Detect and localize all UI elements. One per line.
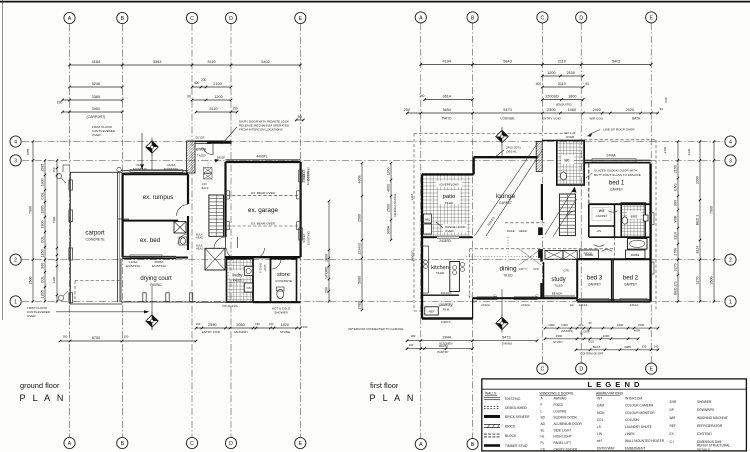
svg-text:3950: 3950 xyxy=(92,107,100,111)
svg-text:BRICK: BRICK xyxy=(505,424,516,428)
svg-text:ENTRY VOID: ENTRY VOID xyxy=(202,330,221,334)
svg-text:WIR: WIR xyxy=(673,215,677,222)
svg-text:2418: 2418 xyxy=(410,193,414,200)
stairwell west wall on C xyxy=(539,184,543,258)
svg-text:SHR: SHR xyxy=(670,400,677,404)
svg-text:COLUMN: COLUMN xyxy=(625,418,640,422)
svg-text:3500: 3500 xyxy=(709,277,713,285)
svg-text:LINE OF ROOF OVER: LINE OF ROOF OVER xyxy=(603,128,635,132)
svg-text:1300: 1300 xyxy=(561,323,568,327)
first floor chain 3614 xyxy=(419,94,474,101)
left overall vertical chain 7900/3500 xyxy=(28,140,34,302)
wc tiled room top xyxy=(557,141,584,186)
svg-text:1200: 1200 xyxy=(214,95,222,99)
svg-text:1200: 1200 xyxy=(547,71,555,75)
grid line row 2 xyxy=(22,259,723,261)
svg-text:150: 150 xyxy=(232,107,238,111)
svg-text:960: 960 xyxy=(673,200,677,206)
entry top wall xyxy=(195,141,232,143)
svg-text:2100: 2100 xyxy=(673,165,677,173)
kitchen 2400SD label xyxy=(439,239,451,243)
labels below bottom wall xyxy=(222,304,291,315)
dashed cantilever rect bottom xyxy=(75,281,121,303)
svg-text:2100: 2100 xyxy=(213,82,221,86)
grid bubble B top (ground floor) xyxy=(117,12,128,23)
svg-text:1.08: 1.08 xyxy=(202,182,208,186)
svg-text:EXISTING: EXISTING xyxy=(133,167,148,171)
svg-text:COL: COL xyxy=(597,418,604,422)
svg-text:90: 90 xyxy=(659,107,663,111)
svg-text:BLOCK: BLOCK xyxy=(505,434,517,438)
lounge top wall xyxy=(474,157,538,174)
svg-text:SIDE LIGHT: SIDE LIGHT xyxy=(554,428,572,432)
svg-text:2402F: 2402F xyxy=(217,156,226,160)
sdt note xyxy=(495,146,522,158)
kitchen roofline dashes top xyxy=(469,249,471,298)
grid line A (ground floor) xyxy=(69,24,71,437)
svg-text:HL: HL xyxy=(541,435,545,439)
svg-text:LS: LS xyxy=(597,425,601,429)
svg-text:5402: 5402 xyxy=(261,60,269,64)
svg-text:4: 4 xyxy=(14,140,17,146)
svg-text:DP: DP xyxy=(670,408,674,412)
svg-text:90: 90 xyxy=(585,82,589,86)
svg-text:ens: ens xyxy=(631,214,637,219)
svg-text:3000: 3000 xyxy=(695,176,699,184)
ex bed label xyxy=(140,237,161,244)
svg-text:2590: 2590 xyxy=(208,323,216,327)
svg-text:INTERCOM: INTERCOM xyxy=(625,397,642,401)
garage right wall window marks xyxy=(299,170,303,240)
svg-text:190: 190 xyxy=(124,335,129,339)
svg-text:8750: 8750 xyxy=(92,336,100,340)
legend walls header xyxy=(485,391,497,395)
svg-text:3500: 3500 xyxy=(28,277,32,285)
svg-text:E: E xyxy=(299,16,303,22)
stairs ground floor xyxy=(209,195,224,236)
svg-text:2444A: 2444A xyxy=(606,154,616,158)
svg-text:OVER: OVER xyxy=(92,133,101,137)
right chain bed1 xyxy=(695,140,701,302)
svg-text:1800: 1800 xyxy=(40,221,44,229)
patio overflow note xyxy=(436,181,462,188)
section diamond top (first) xyxy=(496,127,508,156)
carport right existing wall xyxy=(118,172,129,302)
svg-text:PANEL LIFT: PANEL LIFT xyxy=(554,441,572,445)
svg-text:drying court: drying court xyxy=(140,276,172,282)
svg-text:REF: REF xyxy=(670,424,676,428)
svg-text:patio: patio xyxy=(443,194,456,200)
ground floor carport dimension chain 3360 xyxy=(57,95,124,104)
hall door arcs xyxy=(594,211,618,252)
carport corner column markers xyxy=(56,167,121,300)
robe boxes xyxy=(580,250,646,258)
svg-text:400: 400 xyxy=(536,82,542,86)
svg-text:90: 90 xyxy=(298,115,302,119)
ground floor main top dimension chain xyxy=(68,60,301,66)
dining label xyxy=(499,266,517,278)
svg-text:180: 180 xyxy=(411,334,416,338)
svg-text:900A: 900A xyxy=(386,225,390,234)
svg-text:BATH: BATH xyxy=(632,117,641,121)
svg-text:2700: 2700 xyxy=(673,248,677,256)
svg-text:2100: 2100 xyxy=(567,71,575,75)
svg-text:1500: 1500 xyxy=(638,323,645,327)
svg-text:wir: wir xyxy=(599,208,605,213)
flue box at bed corner xyxy=(174,222,186,234)
D207A label xyxy=(441,320,450,324)
svg-text:wH: wH xyxy=(597,439,602,443)
svg-text:1: 1 xyxy=(729,300,732,306)
first floor chain 3110 xyxy=(536,82,589,88)
svg-text:4600: 4600 xyxy=(386,184,390,192)
entry label xyxy=(196,147,207,158)
svg-text:2500: 2500 xyxy=(386,204,390,212)
grid bubble C top (ground floor) xyxy=(186,12,197,23)
svg-text:7900: 7900 xyxy=(709,206,713,214)
svg-text:2080: 2080 xyxy=(236,323,244,327)
svg-text:WM: WM xyxy=(670,416,676,420)
svg-text:1: 1 xyxy=(14,300,17,306)
svg-text:L E G E N D: L E G E N D xyxy=(587,380,640,389)
carport label xyxy=(85,230,105,242)
ground floor: carport outline xyxy=(63,165,122,304)
svg-text:WALL MOUNTED HEATER: WALL MOUNTED HEATER xyxy=(625,439,665,443)
svg-text:SHOWER: SHOWER xyxy=(697,400,712,404)
svg-text:1134x3: 1134x3 xyxy=(357,243,361,255)
lounge dashed head lines xyxy=(505,223,545,233)
svg-text:1460: 1460 xyxy=(568,108,576,112)
bed3 walls xyxy=(577,259,613,301)
grid bubble row 3 left xyxy=(10,155,21,166)
ridge note xyxy=(584,252,593,256)
svg-text:1585: 1585 xyxy=(26,148,30,155)
svg-text:2500: 2500 xyxy=(547,108,555,112)
svg-text:3270: 3270 xyxy=(673,263,677,271)
svg-text:CONCRETE: CONCRETE xyxy=(85,238,105,242)
svg-text:1200: 1200 xyxy=(386,168,390,176)
ground floor 90 tick labels near E xyxy=(295,115,305,121)
carport posts on left wall xyxy=(69,172,73,304)
ground floor carport dimension chain 3950 xyxy=(61,107,123,119)
study area xyxy=(542,249,576,298)
first floor cantilever note top xyxy=(92,125,144,170)
svg-text:190: 190 xyxy=(255,322,260,326)
svg-text:2920: 2920 xyxy=(625,108,633,112)
row4 left tail xyxy=(26,148,30,155)
grid bubble row 4 left xyxy=(10,136,21,147)
svg-text:2414CD: 2414CD xyxy=(441,291,452,295)
svg-text:BACK: BACK xyxy=(202,186,209,190)
kitchen walls xyxy=(422,236,473,318)
svg-text:COLOUR MONITOR: COLOUR MONITOR xyxy=(625,411,655,415)
grid line B (ground floor) xyxy=(121,24,123,437)
svg-text:CARPET: CARPET xyxy=(499,201,512,205)
bed2 label xyxy=(623,275,639,287)
svg-text:first floor: first floor xyxy=(370,381,399,390)
grid bubble E bottom (first floor) xyxy=(646,363,657,374)
C1 column labels on dining wall xyxy=(468,294,539,298)
grid line A (first floor) xyxy=(420,23,422,438)
svg-text:ex. rumpus: ex. rumpus xyxy=(143,194,174,201)
svg-text:90: 90 xyxy=(589,321,592,325)
svg-text:A: A xyxy=(68,441,72,447)
svg-text:BENCH: BENCH xyxy=(552,292,563,296)
svg-text:240: 240 xyxy=(654,345,659,349)
dining bulkhead dotted lines xyxy=(466,237,541,257)
top border line xyxy=(0,1,750,3)
svg-text:OVER: OVER xyxy=(445,229,454,233)
svg-text:A630: A630 xyxy=(439,344,448,348)
first floor chain 1200SD 1800 ensuite xyxy=(541,95,584,107)
rumpus label xyxy=(143,194,174,201)
svg-text:OVER: OVER xyxy=(566,135,575,139)
svg-text:B: B xyxy=(471,16,475,22)
svg-text:COLOUR CAMERA: COLOUR CAMERA xyxy=(625,404,654,408)
svg-text:CAVITY SLIDER: CAVITY SLIDER xyxy=(554,447,578,451)
svg-text:WM: WM xyxy=(247,286,253,290)
grid bubble row 2 right xyxy=(725,254,736,265)
svg-text:1780: 1780 xyxy=(357,302,361,310)
svg-text:4808: 4808 xyxy=(357,176,361,184)
svg-text:4400PL: 4400PL xyxy=(257,155,268,159)
svg-text:4099: 4099 xyxy=(634,328,641,332)
svg-text:1800: 1800 xyxy=(568,95,576,99)
first floor bottom chain kitchen/dining xyxy=(406,334,539,346)
svg-text:(STAIRS): (STAIRS) xyxy=(561,329,573,333)
svg-text:dbo: dbo xyxy=(578,323,583,327)
svg-text:C: C xyxy=(190,441,194,447)
svg-text:CS: CS xyxy=(541,447,545,451)
svg-text:B: B xyxy=(471,442,475,448)
svg-text:LIN: LIN xyxy=(597,432,603,436)
svg-text:entry: entry xyxy=(196,147,207,152)
hall door arcs xyxy=(227,237,265,259)
svg-text:A: A xyxy=(419,16,423,22)
svg-text:AWNING: AWNING xyxy=(554,397,568,401)
svg-text:3240: 3240 xyxy=(92,82,100,86)
svg-text:PANTRY: PANTRY xyxy=(437,350,449,354)
svg-text:LINEN: LINEN xyxy=(625,432,635,436)
svg-text:wc: wc xyxy=(564,158,569,163)
svg-text:LIN: LIN xyxy=(597,229,602,233)
svg-text:HEAD: HEAD xyxy=(519,229,527,233)
svg-text:EXISTING: EXISTING xyxy=(152,264,167,268)
svg-text:2500: 2500 xyxy=(556,334,563,338)
patio label xyxy=(438,190,460,205)
svg-text:3: 3 xyxy=(14,159,17,165)
legend abbreviations column xyxy=(596,391,665,450)
grid bubble row 4 right xyxy=(725,136,736,147)
svg-text:180: 180 xyxy=(63,335,68,339)
svg-text:240: 240 xyxy=(664,97,668,102)
beds bottom window bands xyxy=(570,298,650,307)
grid bubble B bottom (first floor) xyxy=(467,438,478,449)
bed1 left glazed wall dashed xyxy=(588,164,590,204)
grid line row 3 xyxy=(22,159,723,161)
svg-text:200: 200 xyxy=(201,78,207,82)
grid line C (first floor) xyxy=(541,23,543,363)
patio walls xyxy=(422,174,474,237)
svg-text:study: study xyxy=(551,277,565,283)
patio planter boxes xyxy=(424,214,432,234)
wir label xyxy=(592,208,611,221)
svg-text:E: E xyxy=(649,367,653,373)
bed1 top window band xyxy=(584,154,651,163)
svg-text:4194: 4194 xyxy=(442,60,450,64)
svg-text:90: 90 xyxy=(587,329,590,333)
svg-text:D: D xyxy=(229,16,233,22)
store room xyxy=(271,259,297,302)
svg-text:7900: 7900 xyxy=(28,206,32,214)
first floor chain 1200 2100 xyxy=(541,71,584,77)
right chain ensuite xyxy=(673,140,679,302)
first floor main top dimension chain xyxy=(420,60,653,66)
svg-text:190: 190 xyxy=(269,322,274,326)
svg-text:BED 2/3: BED 2/3 xyxy=(673,282,677,295)
stair bottom landing X-box xyxy=(196,233,225,271)
svg-text:CARPET: CARPET xyxy=(596,214,608,218)
grid bubble B bottom (ground floor) xyxy=(117,437,128,448)
svg-text:3110: 3110 xyxy=(209,107,217,111)
svg-text:1895: 1895 xyxy=(40,290,44,298)
rumpus door arc xyxy=(177,205,189,217)
grid bubble E top (first floor) xyxy=(646,12,657,23)
grid bubble A top (ground floor) xyxy=(64,12,75,23)
svg-text:lounge: lounge xyxy=(496,193,516,200)
svg-text:TILED: TILED xyxy=(554,284,563,288)
svg-text:C: C xyxy=(541,367,545,373)
garage walls xyxy=(226,160,301,257)
svg-text:CPD: CPD xyxy=(533,267,539,271)
dairy door note xyxy=(222,120,290,145)
svg-text:HIGH LIGHT: HIGH LIGHT xyxy=(554,435,572,439)
svg-text:0715042: 0715042 xyxy=(259,262,263,273)
hall walls mid xyxy=(577,237,650,259)
svg-text:CARPET: CARPET xyxy=(588,283,601,287)
svg-text:2407 U: 2407 U xyxy=(519,267,528,271)
raked ceiling diagonals xyxy=(475,143,544,236)
svg-text:190: 190 xyxy=(419,94,425,98)
svg-text:1200: 1200 xyxy=(52,276,56,283)
grid bubble row 2 left xyxy=(10,254,21,265)
svg-text:REFRIGERATOR: REFRIGERATOR xyxy=(697,424,723,428)
svg-text:A: A xyxy=(419,442,423,448)
svg-text:3085: 3085 xyxy=(624,345,631,349)
svg-text:ROBE: ROBE xyxy=(631,253,640,257)
svg-text:A: A xyxy=(68,16,72,22)
intercom note xyxy=(348,327,403,331)
svg-text:1895: 1895 xyxy=(40,206,44,214)
svg-text:863 8: 863 8 xyxy=(593,345,601,349)
svg-text:5402: 5402 xyxy=(612,60,620,64)
entry side marks xyxy=(202,159,220,190)
grid line E (first floor) xyxy=(650,23,652,363)
grid bubble D top (first floor) xyxy=(576,12,587,23)
svg-text:C: C xyxy=(541,16,545,22)
svg-text:ROBE: ROBE xyxy=(585,253,594,257)
drying court posts xyxy=(143,293,193,302)
hall strip xyxy=(196,259,301,302)
svg-text:EXISTING: EXISTING xyxy=(697,432,712,436)
svg-text:3110: 3110 xyxy=(558,82,566,86)
svg-text:bed 2: bed 2 xyxy=(623,275,639,282)
svg-text:EXISTING: EXISTING xyxy=(306,170,310,185)
drying court label xyxy=(140,276,172,287)
garage right window label rotated xyxy=(302,170,310,185)
svg-text:3654: 3654 xyxy=(442,108,450,112)
first floor bottom chain pantry xyxy=(406,343,474,354)
svg-text:EXISTING: EXISTING xyxy=(505,397,521,401)
svg-text:ABBREVIATIONS: ABBREVIATIONS xyxy=(596,391,624,395)
svg-text:HEAD: HEAD xyxy=(196,236,203,240)
ground floor carport dimension chain 3240 xyxy=(68,82,123,88)
svg-text:(CARPORT): (CARPORT) xyxy=(87,115,106,119)
svg-text:LAUNDRY: LAUNDRY xyxy=(234,330,248,334)
svg-text:DINING: DINING xyxy=(502,341,513,345)
svg-text:3563: 3563 xyxy=(153,60,161,64)
svg-text:LAUNDRY SHUTE: LAUNDRY SHUTE xyxy=(625,425,652,429)
glazed sliding door note xyxy=(586,169,641,179)
svg-text:240: 240 xyxy=(303,325,308,329)
svg-text:BBQ: BBQ xyxy=(425,218,430,222)
svg-text:ALUMINIUM DOOR: ALUMINIUM DOOR xyxy=(554,422,583,426)
legend windows/doors column xyxy=(540,391,583,451)
svg-text:DOWNPIPE: DOWNPIPE xyxy=(697,408,714,412)
bath tub xyxy=(628,239,648,250)
svg-text:3110: 3110 xyxy=(673,232,677,240)
grid bubble row 3 right xyxy=(725,155,736,166)
svg-text:5080: 5080 xyxy=(357,276,361,284)
svg-text:P L A N: P L A N xyxy=(370,393,416,403)
svg-text:3360: 3360 xyxy=(92,95,100,99)
svg-text:COS: COS xyxy=(588,340,594,344)
svg-text:2412A: 2412A xyxy=(521,303,530,307)
first floor stacked chain row2 xyxy=(544,329,640,345)
stairwell hatched wall xyxy=(509,142,570,172)
svg-text:OP 21 1/2A: OP 21 1/2A xyxy=(222,304,237,308)
svg-text:CONCRETE: CONCRETE xyxy=(275,279,292,283)
svg-text:D: D xyxy=(229,441,233,447)
wc labels over xyxy=(564,131,576,139)
hall annotations xyxy=(259,262,268,273)
svg-text:2400SD: 2400SD xyxy=(411,250,415,262)
svg-text:B: B xyxy=(121,441,125,447)
stair-hall door arc xyxy=(567,211,576,218)
garage beams dashed xyxy=(226,191,301,230)
wm box xyxy=(245,283,254,292)
grid bubble row 1 right xyxy=(725,296,736,307)
section diamond top (ground) xyxy=(146,138,158,170)
svg-text:1585: 1585 xyxy=(40,164,44,172)
svg-text:2844: 2844 xyxy=(442,336,450,340)
svg-text:HEAD: HEAD xyxy=(196,247,203,251)
grid bubble E top (ground floor) xyxy=(295,12,306,23)
small wc near bed (basin) xyxy=(179,237,187,245)
laundry label xyxy=(229,271,246,283)
svg-text:store: store xyxy=(277,272,290,278)
svg-text:5473: 5473 xyxy=(503,108,511,112)
entry labels D212F 2402F xyxy=(195,136,225,160)
svg-text:TILED: TILED xyxy=(436,271,445,275)
grid bubble C bottom (ground floor) xyxy=(186,437,197,448)
svg-text:P L A N: P L A N xyxy=(20,393,66,403)
right overall chain 7900/3500 xyxy=(709,140,715,302)
drying court dashed boundary xyxy=(121,258,196,302)
svg-text:LOUNGE: LOUNGE xyxy=(501,117,516,121)
svg-text:190: 190 xyxy=(196,322,201,326)
svg-text:bed 1: bed 1 xyxy=(609,180,625,187)
